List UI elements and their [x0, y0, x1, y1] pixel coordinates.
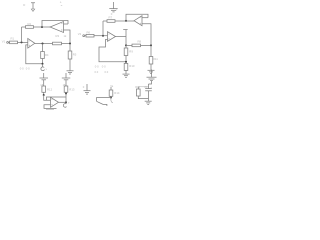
svg-text:D: D: [23, 3, 25, 7]
wire to R7: [103, 20, 107, 22]
node E: [42, 63, 44, 65]
wire U5 noninverting input to ground rail: [44, 105, 57, 109]
svg-text:R11: R11: [153, 57, 158, 61]
wire R5 to ground: [69, 59, 71, 71]
wire node J down to node I: [65, 94, 67, 103]
svg-text:R4: R4: [45, 53, 49, 57]
wire R7 to node B2 and buffer U4 output: [115, 20, 134, 22]
node J: [65, 93, 67, 95]
resistor R10: [124, 63, 128, 70]
wire left branch down: [137, 87, 139, 89]
svg-text:v: v: [46, 68, 48, 71]
svg-text:V1: V1: [2, 40, 6, 44]
wire R2 to node B and buffer output: [34, 26, 51, 28]
wire R12 to node H: [43, 92, 45, 95]
wire V1 to R1: [9, 41, 10, 43]
wire U2 inverting input: [64, 23, 69, 25]
wire U3 noninverting input path: [99, 40, 126, 62]
ground bottom right: [145, 101, 152, 104]
wire R8 to node D2: [141, 44, 152, 46]
top connector wire RC pair: [138, 86, 148, 88]
svg-text:1k: 1k: [64, 34, 67, 38]
wire feedback U5: [47, 97, 67, 100]
svg-text:R8: R8: [138, 39, 142, 43]
wire net to R14: [110, 87, 112, 90]
wire R14 to node K: [110, 96, 112, 97]
resistor R9: [124, 48, 128, 56]
wire R1 to node A / opamp: [18, 41, 28, 43]
node F: [125, 44, 127, 46]
wire U4 inverting input: [142, 17, 148, 19]
node B: [41, 26, 43, 28]
wire feedback loop of buffer U2: [42, 21, 68, 28]
ground stub mid bottom: [84, 84, 91, 94]
resistor R2: [26, 26, 34, 29]
svg-text:R3: R3: [56, 34, 60, 38]
wire C1 down: [148, 84, 150, 99]
wire node A2 up: [102, 21, 104, 36]
ground below R10: [123, 74, 130, 77]
wire node K down with curve: [111, 98, 113, 103]
node H: [43, 94, 45, 96]
wire R4 to node E: [42, 59, 44, 64]
wire U5 output to node I: [59, 101, 67, 103]
svg-text:R10: R10: [129, 64, 135, 68]
power flag VCC bottom-left 2: [62, 73, 71, 86]
op-amp U5: [51, 97, 59, 107]
wire R13 to node J: [65, 92, 67, 93]
node A2: [102, 35, 104, 37]
probe hook at node E: [41, 67, 45, 71]
ground below R11: [148, 70, 155, 73]
wire node E to probe hook: [42, 64, 44, 67]
wire U2 noninverting input to node D: [64, 30, 71, 44]
terminal of V1: [7, 42, 9, 44]
node G divider tap: [125, 61, 127, 63]
probe hook below node I: [63, 104, 66, 108]
resistor R4: [41, 52, 45, 59]
switch S1 contact: [103, 104, 107, 106]
op-amp U2 (buffer, points left): [50, 22, 64, 33]
resistor R1: [10, 41, 18, 44]
resistor R7: [107, 20, 115, 23]
wire R15 down to bottom rail: [138, 96, 148, 99]
terminal of V2: [83, 35, 85, 37]
svg-text:R9: R9: [129, 49, 133, 53]
wire node D2 down to R11: [150, 45, 152, 56]
node D2: [150, 44, 152, 46]
svg-text:0·0: 0·0: [20, 67, 24, 71]
svg-text:R6: R6: [87, 31, 91, 35]
node A: [21, 41, 23, 43]
resistor R5: [68, 51, 72, 59]
svg-text:V: V: [116, 8, 118, 12]
wire node H to opamp U5 inverting input: [44, 95, 51, 100]
svg-text:0·0: 0·0: [105, 70, 109, 74]
wire R10 to ground: [125, 70, 127, 74]
wire node D down to R5: [69, 44, 71, 52]
wire U1 output: [35, 43, 53, 45]
wire node K left: [97, 98, 111, 102]
speck below plus mark: [61, 5, 62, 6]
resistor R8: [132, 44, 141, 47]
wire R6 to node A2 / opamp U3: [94, 35, 108, 37]
svg-text:0·0: 0·0: [95, 65, 99, 69]
svg-text:R2: R2: [28, 22, 32, 26]
wire to R2: [22, 26, 26, 28]
wire to ground: [148, 99, 150, 101]
capacitor tick column top: [123, 29, 127, 31]
node C: [42, 43, 44, 45]
svg-text:0·0: 0·0: [95, 70, 99, 74]
node K: [110, 97, 112, 99]
node D: [69, 43, 71, 45]
wire vertical at node F column: [125, 30, 127, 46]
wire V2 to R6: [85, 35, 86, 37]
svg-text:R5: R5: [73, 53, 77, 57]
resistor R15: [137, 89, 141, 96]
svg-text:R7: R7: [109, 15, 113, 19]
wire R3 to node D: [62, 43, 71, 45]
svg-text:0·0: 0·0: [102, 65, 106, 69]
wire node I stub: [65, 102, 67, 103]
resistor R6: [86, 34, 94, 37]
switch S1 blade: [97, 101, 104, 104]
node B2: [125, 20, 127, 22]
resistor R12: [42, 86, 46, 92]
wire node A up: [21, 27, 23, 42]
ground flag 0 (top right, bar style): [109, 2, 117, 12]
svg-text:V2: V2: [78, 32, 82, 36]
capacitor C1: [145, 89, 152, 91]
svg-text:R13: R13: [69, 87, 75, 91]
svg-text:R12: R12: [47, 87, 53, 91]
svg-text:R14: R14: [114, 91, 120, 95]
wire node F down to R9: [125, 45, 127, 48]
op-amp U3: [108, 32, 116, 42]
power flag bottom right: [147, 70, 157, 81]
ground below R5: [67, 71, 74, 74]
svg-text:R1: R1: [11, 37, 15, 41]
power flag VEE (top left, down-arrow): [31, 3, 35, 12]
svg-text:+: +: [60, 1, 62, 5]
wire feedback loop of buffer U4: [126, 14, 148, 20]
power flag VCC bottom-left 1: [40, 73, 49, 86]
wire node C down to R4: [42, 44, 44, 52]
op-amp U1: [28, 39, 35, 49]
wire R9 to node G: [125, 56, 127, 64]
svg-text:0: 0: [83, 85, 85, 89]
ground bar under U5: [46, 109, 54, 111]
resistor R3: [53, 42, 62, 45]
resistor R11: [149, 57, 153, 65]
node I: [65, 101, 67, 103]
wire flag to RC pair: [149, 81, 152, 84]
wire R11 to ground: [150, 64, 152, 70]
wire U3 output: [116, 36, 127, 38]
svg-text:0·0: 0·0: [26, 67, 30, 71]
wire U1 noninverting input down: [26, 45, 43, 64]
resistor R13: [64, 86, 68, 92]
op-amp U4 (buffer, points left): [134, 16, 142, 26]
wire U4 noninverting input to node D2: [142, 24, 151, 46]
svg-text:v: v: [68, 101, 70, 104]
wire node F to R8: [126, 44, 132, 46]
resistor R14: [109, 90, 113, 96]
